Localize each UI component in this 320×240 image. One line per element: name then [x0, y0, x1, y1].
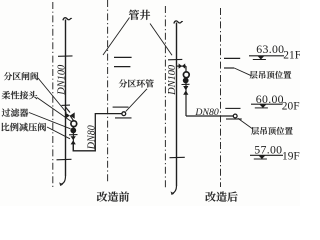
- label 过滤器: [2, 108, 29, 116]
- elevation mark 63.00 21F: [249, 55, 284, 57]
- shaft centerline right-inner 管井 after (dash-dot): [164, 6, 166, 189]
- filter (after): [183, 78, 189, 84]
- elevation mark 60.00 20F: [251, 103, 283, 105]
- label 分区闸阀: [4, 72, 39, 80]
- elevation mark 57.00 19F: [250, 154, 283, 156]
- label 分区环管: [119, 79, 154, 87]
- riser before: top vent hook: [63, 18, 72, 21]
- tick below filter (before): [69, 134, 78, 136]
- ceiling line below ring connection (before): [115, 117, 132, 119]
- svg-text:20F: 20F: [282, 100, 300, 112]
- ceiling double line 21F (before): [114, 56, 132, 58]
- leader 柔性接头: [37, 98, 71, 122]
- riser DN100 after: main vertical pipe: [176, 23, 178, 187]
- leader 比例减压阀: [47, 127, 70, 139]
- ceiling double line 21F (after): [224, 57, 240, 59]
- flexible joint 柔性接头 (before): [71, 121, 77, 127]
- riser DN100 before: main vertical pipe: [65, 20, 67, 177]
- label 柔性接头: [2, 91, 37, 99]
- svg-text:63.00: 63.00: [256, 42, 284, 56]
- svg-text:DN80: DN80: [194, 107, 219, 118]
- shaft centerline left-outer (dash-dot): [52, 2, 54, 188]
- svg-text:57.00: 57.00: [254, 143, 282, 157]
- svg-text:DN100: DN100: [167, 64, 178, 96]
- riser before: bottom flow arrow: [61, 176, 65, 184]
- svg-text:DN80: DN80: [86, 125, 97, 150]
- riser before: break tick upper: [58, 55, 73, 57]
- pressure reducing valve (after): [183, 86, 188, 90]
- tee tick on riser (before): [62, 104, 71, 106]
- ceiling line below pipe (after): [226, 118, 242, 120]
- tick below filter (after): [182, 83, 190, 85]
- label 管井: [129, 10, 150, 20]
- valve train line (after): [185, 66, 187, 116]
- zone ring main connection circle (before): [122, 112, 126, 116]
- svg-text:19F: 19F: [282, 150, 300, 162]
- svg-text:60.00: 60.00: [256, 92, 284, 106]
- riser after: top vent hook: [174, 21, 183, 24]
- riser after: bottom flow arrow: [172, 186, 176, 193]
- riser before: break tick lower: [57, 158, 72, 161]
- leader 过滤器: [29, 113, 71, 129]
- leader 管井 to after shaft: [150, 24, 172, 56]
- flexible joint (after): [183, 72, 189, 78]
- ring connection circle (after): [233, 114, 237, 118]
- filter 过滤器 (before): [70, 127, 76, 133]
- shaft centerline right-outer (dash-dot): [220, 8, 222, 187]
- ceiling line above pipe (after): [225, 107, 240, 109]
- leader lower 层吊顶位置: [238, 118, 253, 129]
- shaft centerline left-inner 管井 before (dash-dot): [107, 0, 109, 183]
- DN80 horizontal pipe (after): [186, 115, 233, 117]
- label 改造后: [205, 191, 237, 201]
- valve train line (before): [66, 107, 74, 151]
- DN80 connecting pipe U-run (before): down, right, up, right: [73, 114, 122, 151]
- leader 分区闸阀: [38, 78, 67, 113]
- label 层吊顶位置 upper: [250, 71, 292, 79]
- svg-text:21F: 21F: [283, 49, 300, 61]
- tee jog from riser (after): [177, 65, 187, 67]
- label 层吊顶位置 lower: [251, 127, 293, 135]
- ceiling line above ring connection (before): [113, 106, 129, 108]
- leader upper 层吊顶位置: [234, 68, 251, 76]
- leader 管井 to before shaft: [103, 18, 130, 56]
- zone gate valve on jog (after): [179, 63, 182, 68]
- label 改造前: [97, 191, 129, 201]
- proportional pressure reducing valve 比例减压阀 (before): [71, 136, 76, 140]
- zone gate valve 分区闸阀 (before): [65, 112, 70, 118]
- svg-text:DN100: DN100: [56, 64, 67, 96]
- riser after: break tick lower: [170, 156, 185, 158]
- riser after: break tick upper: [168, 58, 182, 60]
- leader 分区环管: [126, 89, 147, 112]
- label 比例减压阀: [1, 123, 46, 132]
